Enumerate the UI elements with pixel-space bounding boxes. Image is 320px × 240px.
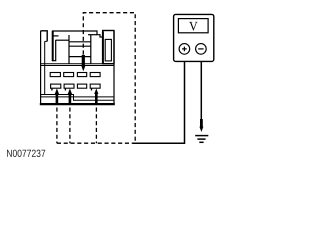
wire: voltmeter negative lead (solid) xyxy=(200,61,202,119)
connector C1 center key tower xyxy=(69,35,91,64)
connector C1 horizontal divider xyxy=(41,64,114,66)
voltmeter V1 display window xyxy=(178,19,208,33)
connector C1 top plate xyxy=(52,31,103,40)
terminal cavity row 2, cavity 2 xyxy=(64,84,74,88)
wire: dashed test lead from top of connector, over and down right side xyxy=(83,13,135,142)
ground symbol xyxy=(195,136,208,143)
connector C1 housing outline xyxy=(40,31,115,104)
voltmeter V1 display letter V xyxy=(189,22,197,31)
terminal cavity row 1, cavity 2 xyxy=(64,73,74,77)
probe arrow up into row 2 cavity 4 xyxy=(94,88,98,104)
connector C1 right ear inner slot xyxy=(105,39,111,61)
connector C1 right mounting ear box xyxy=(103,31,114,64)
terminal cavity row 1, cavity 1 xyxy=(50,73,60,77)
wire: dashed lead down from cavity 2 xyxy=(69,108,71,144)
terminal cavity row 1, cavity 4 xyxy=(90,73,100,77)
wire: dashed lead down from cavity 1 xyxy=(56,108,58,144)
figure label N0077237 xyxy=(7,150,12,157)
wire: voltmeter positive lead (solid) xyxy=(133,61,185,143)
terminal cavity row 2, cavity 1 xyxy=(51,84,61,88)
probe arrow up into row 2 cavity 2 xyxy=(68,88,72,104)
connector C1 bottom latch notch xyxy=(41,95,114,101)
terminal tail marks in row 2 cavities 1, 2, 4 xyxy=(52,88,92,90)
voltmeter V1 negative terminal xyxy=(196,44,207,55)
terminal cavity row 2, cavity 3 xyxy=(77,84,86,88)
wire: dashed bottom bus xyxy=(57,142,133,144)
wire: dashed lead down from cavity 4 xyxy=(95,108,97,144)
voltmeter V1 body xyxy=(174,14,214,61)
connector C1 left terminal slot xyxy=(52,31,56,61)
probe arrow down on negative lead to ground xyxy=(199,119,203,132)
connector C1 inner side wall left xyxy=(45,41,48,94)
connector C1 left mounting ear xyxy=(41,31,48,42)
terminal cavity row 1, cavity 3 xyxy=(77,73,86,77)
voltmeter V1 positive terminal xyxy=(179,44,190,55)
terminal cavity row 2, cavity 4 xyxy=(90,84,100,88)
probe arrow up into row 2 cavity 1 xyxy=(55,88,59,104)
probe arrow down into row 1 cavity 3 xyxy=(81,55,85,71)
